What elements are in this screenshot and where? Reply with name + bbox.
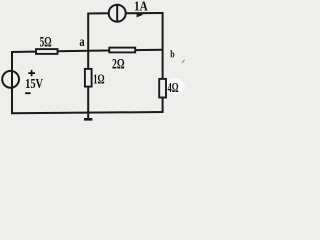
- wire: left vertical branch through 15V source: [11, 51, 13, 113]
- voltage source 15V: circle: [2, 71, 19, 88]
- resistor 2-ohm box: [109, 48, 135, 53]
- wire: top branch horizontal, right of current source: [126, 12, 164, 14]
- wire: bottom horizontal return: [11, 112, 163, 113]
- scan speck near right edge: [182, 60, 185, 63]
- current direction arrow on top branch: [137, 12, 144, 17]
- ground bar: [84, 118, 92, 121]
- svg-text:2Ω: 2Ω: [112, 57, 125, 73]
- resistor 1-ohm box: [85, 69, 92, 87]
- resistor 5-ohm box: [36, 49, 58, 54]
- scan halo behind 4-ohm label: [163, 79, 185, 95]
- resistor 4-ohm box: [159, 79, 166, 98]
- svg-text:15V: 15V: [25, 77, 43, 92]
- label - polarity: [25, 92, 31, 94]
- svg-text:b: b: [170, 49, 174, 61]
- label + polarity: [28, 70, 35, 76]
- svg-text:1Ω: 1Ω: [93, 73, 105, 88]
- wire: middle vertical (node a down through 1-ohm to ground): [87, 14, 89, 119]
- svg-text:a: a: [79, 35, 84, 50]
- wire: right vertical branch (node b down through 4-ohm): [162, 12, 164, 112]
- svg-text:5Ω: 5Ω: [40, 34, 52, 50]
- wire: top branch horizontal, left of current source: [87, 12, 108, 14]
- wire: main middle horizontal (left edge to node b): [11, 50, 163, 52]
- current source internal bar: [116, 5, 118, 22]
- svg-text:1A: 1A: [134, 0, 148, 14]
- svg-text:4Ω: 4Ω: [168, 80, 179, 95]
- current source U: circle: [109, 5, 126, 22]
